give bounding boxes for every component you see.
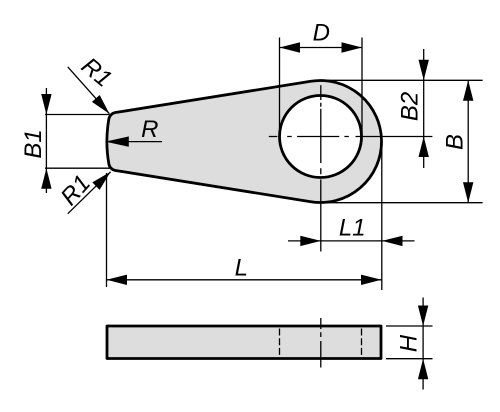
dimension B1 extension line bottom bbox=[45, 167, 110, 169]
dimension B arrow top bbox=[463, 80, 473, 101]
svg-text:H: H bbox=[396, 334, 423, 352]
svg-text:R1: R1 bbox=[55, 170, 96, 211]
dimension L extension line left bbox=[106, 173, 108, 287]
dimension B1 line bbox=[45, 88, 47, 193]
dimension L arrow left bbox=[107, 275, 128, 285]
extension line top (B/B2) bbox=[321, 79, 483, 81]
dimension B arrow bottom bbox=[463, 182, 473, 203]
extension line bottom (B) bbox=[322, 202, 483, 204]
dimension D arrow left bbox=[280, 42, 301, 52]
dimension B1 arrow bottom bbox=[41, 168, 51, 189]
center line horizontal (hole axis) bbox=[269, 136, 433, 138]
dimension L arrow right bbox=[361, 275, 382, 285]
dimension H line bbox=[422, 298, 424, 390]
dimension B2 line bbox=[423, 49, 425, 168]
center line vertical (top view) bbox=[320, 85, 322, 251]
dimension L/L1 extension line right bbox=[381, 146, 383, 290]
side view plate bbox=[107, 326, 381, 359]
center line (side view) bbox=[320, 318, 322, 368]
part outline (top view, flat eyelet) bbox=[107, 80, 382, 202]
dimension H extension line bottom bbox=[386, 358, 433, 360]
radius R1 top leader line bbox=[68, 67, 110, 114]
radius R leader line bbox=[126, 141, 162, 143]
dimension B1 arrow top bbox=[41, 94, 51, 115]
dimension B2 arrow bottom bbox=[419, 137, 429, 158]
hole bbox=[280, 96, 362, 178]
dimension D line bbox=[280, 47, 363, 49]
radius R arrow bbox=[105, 136, 129, 146]
radius R1 top arrow bbox=[92, 95, 109, 114]
svg-text:R: R bbox=[141, 116, 158, 143]
svg-text:L: L bbox=[235, 255, 248, 282]
svg-text:R1: R1 bbox=[76, 52, 117, 92]
dimension H arrow bottom bbox=[418, 359, 428, 380]
dimension L1 arrow right (outside, pointing left) bbox=[382, 236, 403, 246]
svg-text:B1: B1 bbox=[20, 129, 47, 158]
dimension L1 arrow left (outside, pointing right) bbox=[300, 236, 321, 246]
svg-text:L1: L1 bbox=[339, 215, 366, 242]
radius R1 bottom arrow bbox=[92, 172, 110, 190]
svg-text:D: D bbox=[313, 20, 330, 47]
svg-text:B2: B2 bbox=[397, 92, 424, 121]
dimension D extension line left bbox=[279, 38, 281, 141]
dimension B line bbox=[467, 80, 469, 202]
svg-text:B: B bbox=[441, 134, 468, 150]
dimension L line bbox=[107, 279, 382, 281]
dimension B2 arrow top bbox=[419, 60, 429, 81]
dimension H extension line top bbox=[386, 325, 433, 327]
dimension D extension line right bbox=[361, 38, 363, 141]
dimension B1 extension line top bbox=[45, 114, 110, 116]
dimension D arrow right bbox=[342, 42, 363, 52]
radius R1 bottom leader line bbox=[68, 172, 111, 214]
hidden line (hole left edge, side view) bbox=[279, 329, 281, 357]
dimension H arrow top bbox=[418, 306, 428, 327]
hidden line (hole right edge, side view) bbox=[361, 329, 363, 357]
dimension L1 line bbox=[288, 240, 415, 242]
